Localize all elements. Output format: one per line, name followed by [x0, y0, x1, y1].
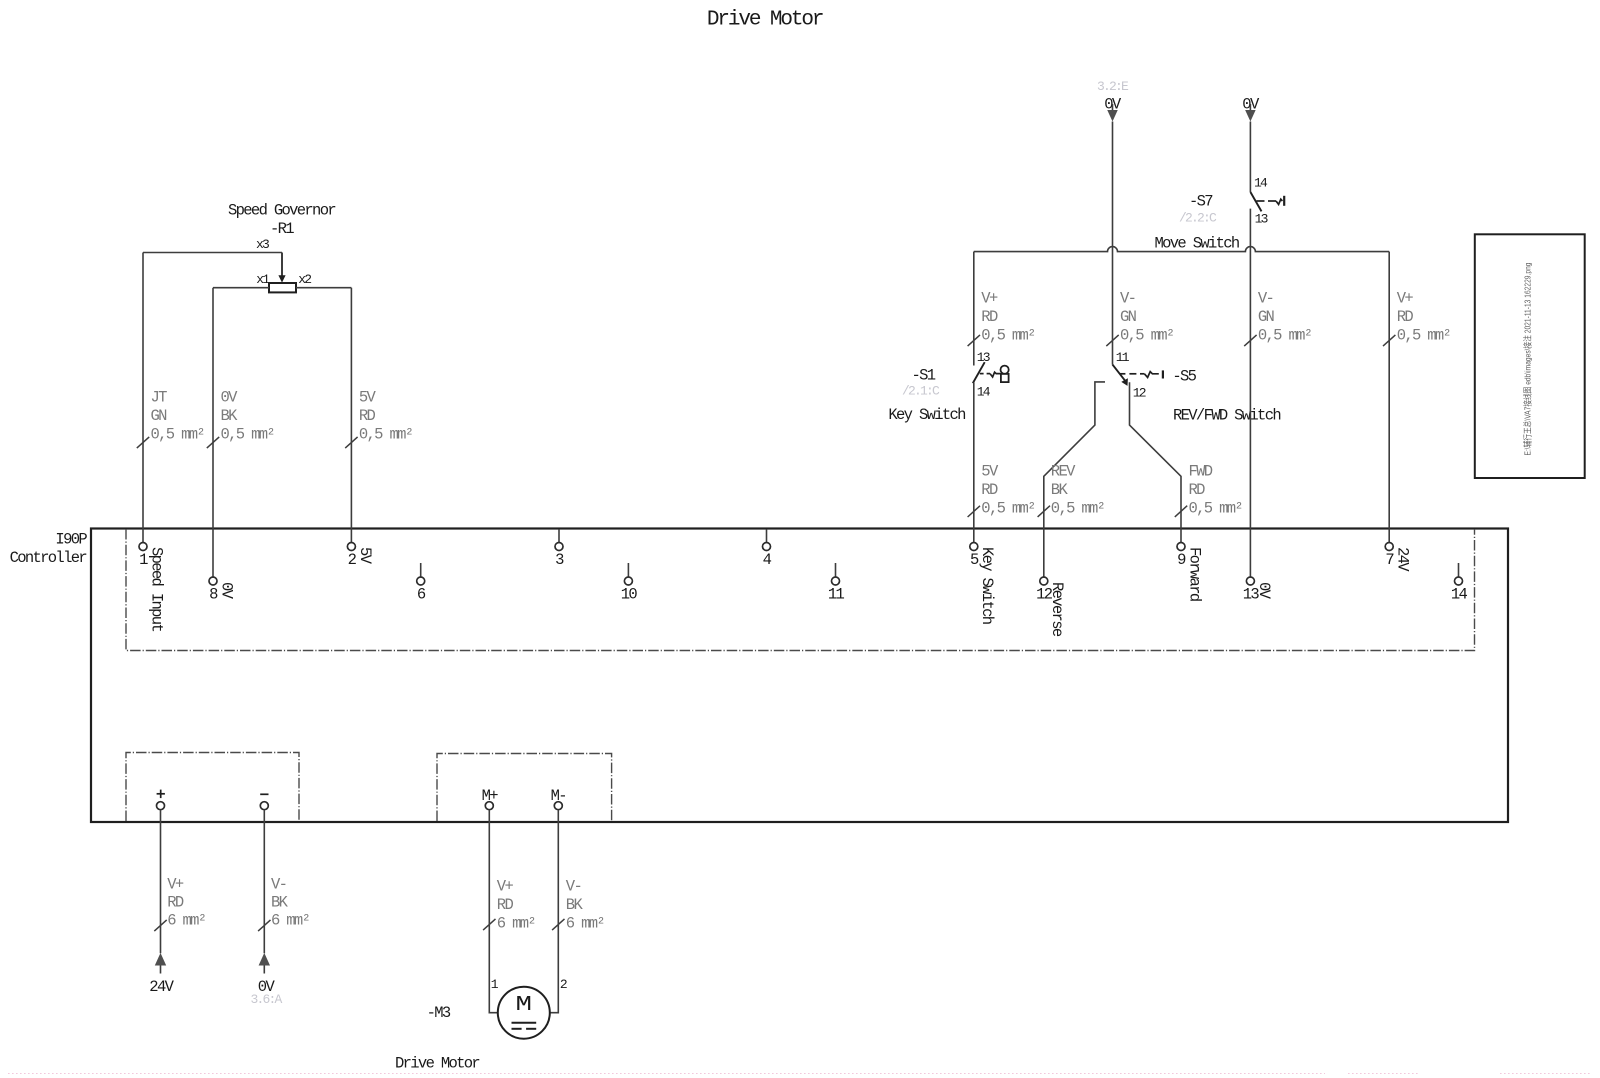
- svg-text:RD: RD: [1189, 481, 1206, 499]
- svg-text:JT: JT: [151, 389, 168, 407]
- svg-text:Key Switch: Key Switch: [888, 406, 965, 424]
- svg-text:0V: 0V: [217, 582, 235, 600]
- svg-text:8: 8: [209, 585, 218, 603]
- svg-text:4: 4: [763, 551, 772, 569]
- svg-text:13: 13: [977, 350, 990, 365]
- svg-text:0,5 mm²: 0,5 mm²: [359, 426, 413, 444]
- svg-text:-M3: -M3: [427, 1004, 451, 1022]
- svg-text:2: 2: [560, 977, 567, 992]
- svg-text:Key Switch: Key Switch: [978, 547, 996, 624]
- svg-text:24V: 24V: [1394, 547, 1412, 572]
- svg-text:14: 14: [1254, 176, 1268, 191]
- svg-text:V-: V-: [1120, 290, 1135, 308]
- svg-text:3.6:A: 3.6:A: [251, 992, 283, 1007]
- svg-text:3.2:E: 3.2:E: [1097, 79, 1129, 94]
- svg-text:0,5 mm²: 0,5 mm²: [1120, 327, 1174, 345]
- svg-text:0,5 mm²: 0,5 mm²: [981, 327, 1035, 345]
- svg-text:14: 14: [977, 384, 991, 399]
- svg-text:/2.2:C: /2.2:C: [1179, 210, 1217, 225]
- svg-text:V+: V+: [981, 290, 998, 308]
- svg-text:RD: RD: [1397, 308, 1414, 326]
- svg-text:V+: V+: [1397, 290, 1414, 308]
- svg-text:6: 6: [417, 585, 426, 603]
- svg-text:x3: x3: [256, 237, 269, 252]
- svg-text:REV/FWD Switch: REV/FWD Switch: [1173, 407, 1280, 425]
- svg-text:M: M: [516, 994, 533, 1017]
- svg-text:12: 12: [1133, 386, 1146, 401]
- svg-text:Controller: Controller: [10, 549, 87, 567]
- svg-text:E:\辅行王总\VA7接线图 edb\images\接注 2: E:\辅行王总\VA7接线图 edb\images\接注 2021-11-13 …: [1523, 262, 1533, 455]
- svg-text:RD: RD: [167, 894, 184, 912]
- svg-text:GN: GN: [151, 407, 168, 425]
- svg-text:0V: 0V: [1255, 582, 1273, 600]
- svg-text:14: 14: [1451, 585, 1468, 603]
- svg-text:0,5 mm²: 0,5 mm²: [221, 426, 275, 444]
- svg-text:-S5: -S5: [1172, 368, 1196, 386]
- svg-text:RD: RD: [359, 407, 376, 425]
- svg-text:BK: BK: [271, 894, 289, 912]
- svg-text:GN: GN: [1120, 308, 1137, 326]
- svg-text:Forward: Forward: [1185, 547, 1203, 601]
- svg-text:BK: BK: [1051, 481, 1069, 499]
- svg-text:V+: V+: [497, 878, 514, 896]
- svg-text:13: 13: [1255, 212, 1268, 227]
- svg-text:11: 11: [828, 585, 845, 603]
- svg-text:0,5 mm²: 0,5 mm²: [1258, 327, 1312, 345]
- svg-text:V+: V+: [167, 876, 184, 894]
- svg-text:Reverse: Reverse: [1048, 582, 1066, 637]
- svg-text:6 mm²: 6 mm²: [167, 912, 205, 930]
- svg-text:24V: 24V: [149, 978, 174, 996]
- svg-text:-R1: -R1: [270, 220, 294, 238]
- svg-text:0,5 mm²: 0,5 mm²: [1051, 500, 1105, 518]
- svg-text:6 mm²: 6 mm²: [566, 915, 604, 933]
- svg-text:RD: RD: [497, 896, 514, 914]
- svg-text:x2: x2: [298, 272, 311, 287]
- svg-text:REV: REV: [1051, 463, 1076, 481]
- svg-text:0,5 mm²: 0,5 mm²: [1189, 500, 1243, 518]
- svg-text:10: 10: [621, 585, 638, 603]
- svg-text:BK: BK: [566, 896, 584, 914]
- svg-text:7: 7: [1385, 551, 1394, 569]
- svg-text:0V: 0V: [221, 389, 239, 407]
- svg-text:9: 9: [1177, 551, 1186, 569]
- svg-text:-S7: -S7: [1189, 192, 1213, 210]
- svg-text:Speed Input: Speed Input: [147, 547, 165, 631]
- svg-text:RD: RD: [981, 481, 998, 499]
- svg-text:1: 1: [139, 551, 148, 569]
- svg-text:5V: 5V: [356, 547, 374, 565]
- svg-text:BK: BK: [221, 407, 239, 425]
- svg-text:-S1: -S1: [912, 366, 936, 384]
- svg-text:0,5 mm²: 0,5 mm²: [981, 500, 1035, 518]
- svg-text:I90P: I90P: [55, 531, 87, 549]
- svg-text:RD: RD: [981, 308, 998, 326]
- svg-text:V-: V-: [271, 876, 286, 894]
- svg-text:5: 5: [970, 551, 979, 569]
- svg-text:/2.1:C: /2.1:C: [902, 383, 940, 398]
- svg-text:3: 3: [555, 551, 564, 569]
- svg-text:V-: V-: [1258, 290, 1273, 308]
- svg-text:11: 11: [1116, 350, 1130, 365]
- svg-text:V-: V-: [566, 878, 581, 896]
- svg-text:Speed Governor: Speed Governor: [228, 201, 335, 219]
- svg-text:FWD: FWD: [1189, 463, 1213, 481]
- svg-text:5V: 5V: [981, 463, 999, 481]
- svg-text:6 mm²: 6 mm²: [271, 912, 309, 930]
- svg-text:5V: 5V: [359, 389, 377, 407]
- svg-text:Drive Motor: Drive Motor: [395, 1054, 479, 1072]
- svg-text:0,5 mm²: 0,5 mm²: [1397, 327, 1451, 345]
- svg-text:2: 2: [348, 551, 357, 569]
- svg-text:Drive Motor: Drive Motor: [707, 9, 823, 32]
- svg-text:6 mm²: 6 mm²: [497, 915, 535, 933]
- svg-text:0,5 mm²: 0,5 mm²: [151, 426, 205, 444]
- svg-text:Move Switch: Move Switch: [1155, 234, 1239, 252]
- svg-text:GN: GN: [1258, 308, 1275, 326]
